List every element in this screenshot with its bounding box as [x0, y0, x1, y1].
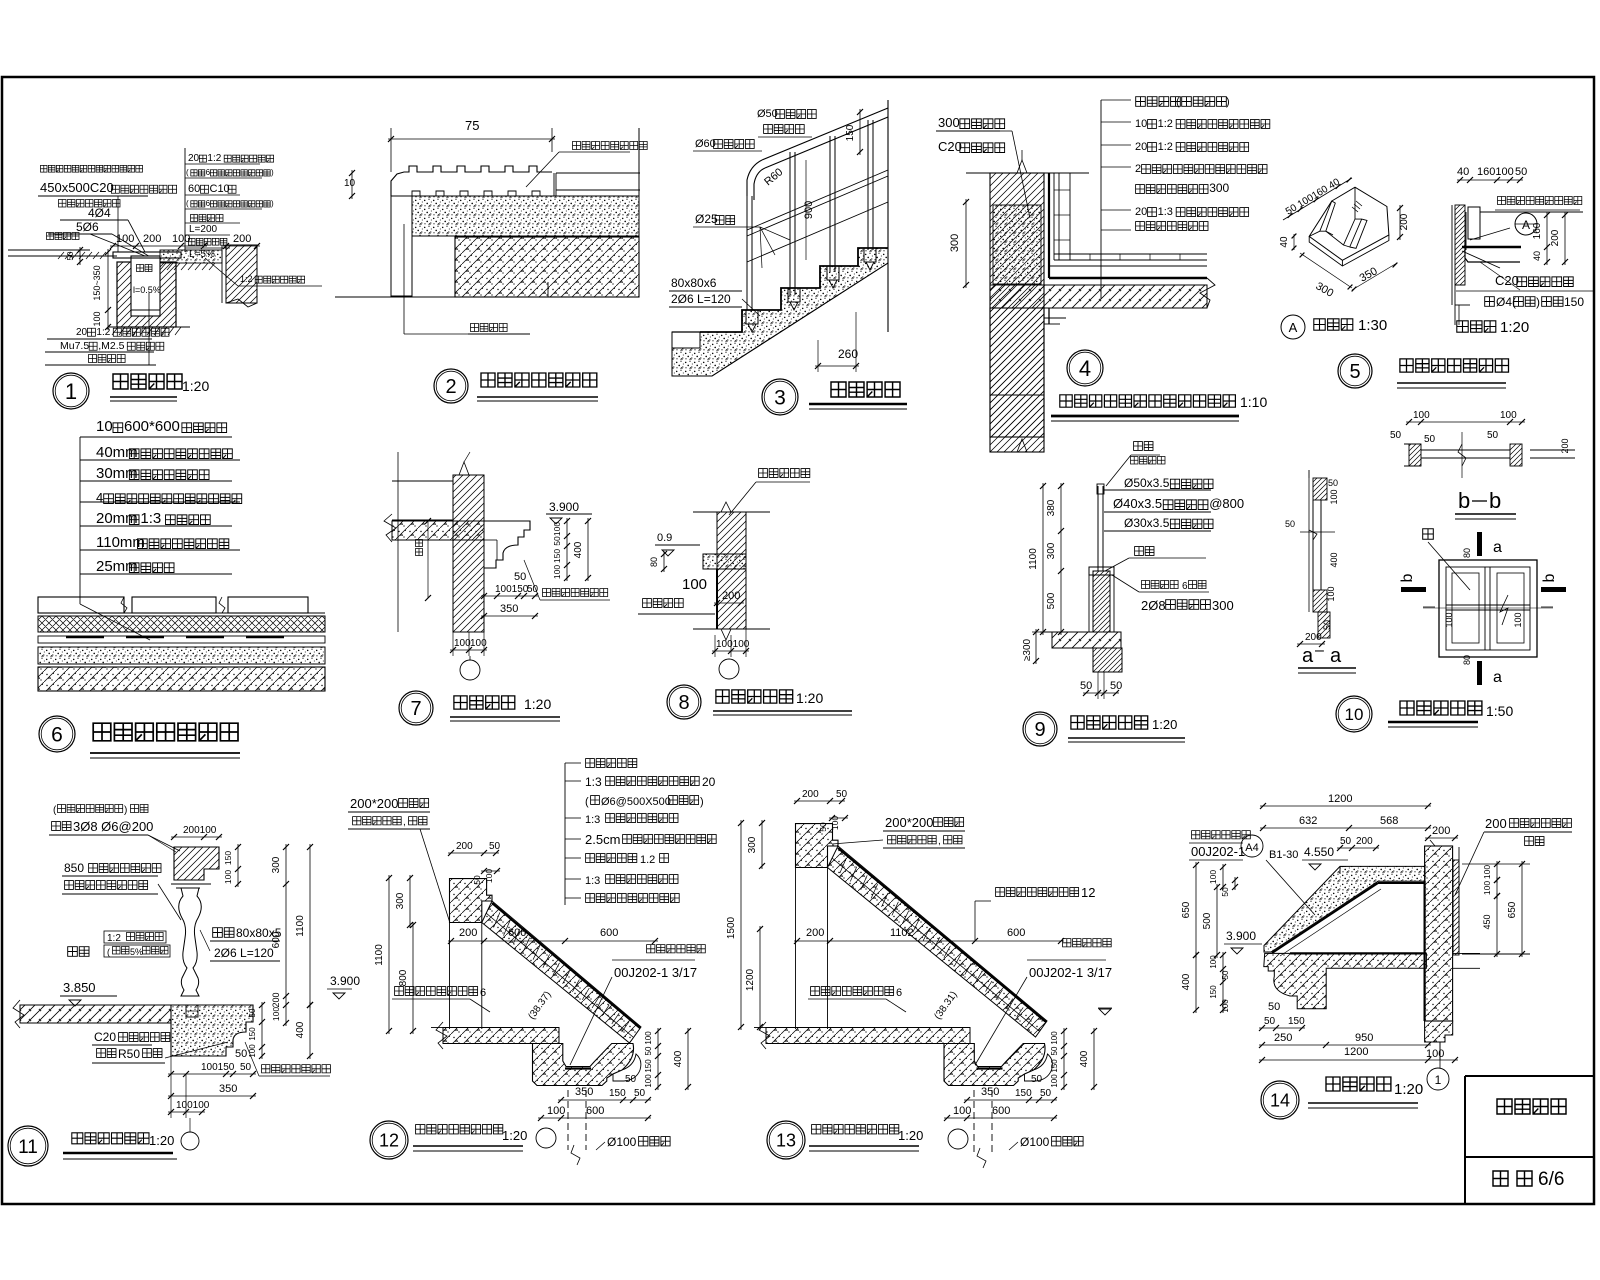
D11 right dim 1100 400: [309, 844, 311, 1008]
D5 axon base plate: [1309, 235, 1389, 266]
D4 leader vline for specs: [1100, 100, 1102, 299]
D10 a-a strip top hatch block: [1313, 478, 1327, 500]
D4 wall top arrow break: [1017, 160, 1027, 173]
D3 mid rail: [747, 170, 888, 230]
D10 window plan inner frame: [1446, 567, 1530, 650]
D5 detail circle 5: [1338, 354, 1372, 388]
svg-text:200: 200: [233, 233, 251, 245]
svg-text:1:20: 1:20: [1500, 319, 1529, 336]
title block text 建施6/6: [1493, 1171, 1508, 1186]
D14 slab thick top line: [1290, 952, 1426, 954]
D8 title 线条大样一 1:20: [716, 690, 793, 703]
svg-text:650: 650: [1507, 901, 1518, 918]
svg-text:50: 50: [625, 1074, 637, 1085]
svg-text:100: 100: [470, 638, 487, 649]
D5 label 雨水管仅落至此屋面: [1498, 197, 1582, 205]
D6 mesh concrete band crosshatch: [38, 616, 325, 632]
svg-text:150: 150: [552, 549, 562, 563]
D13 level tri right: [1099, 1009, 1111, 1015]
D4 slab break right: [1200, 278, 1215, 308]
svg-text:20: 20: [76, 327, 88, 338]
svg-text:(: (: [186, 168, 189, 177]
D1 gutter body hatched: [117, 262, 176, 327]
svg-text:Ø30x3.5: Ø30x3.5: [1124, 516, 1170, 530]
D2 strip outline: [391, 166, 552, 196]
D6 structure slab hatch band: [38, 667, 325, 691]
svg-text:@800: @800: [1209, 496, 1244, 511]
D7 dims right chain 100 50 150 100: [566, 518, 568, 581]
svg-text:150: 150: [644, 1059, 653, 1073]
D9 parapet outer lines: [1088, 567, 1090, 632]
svg-text:300: 300: [1046, 542, 1057, 559]
svg-text:100: 100: [1413, 410, 1430, 421]
svg-text:100: 100: [644, 1031, 653, 1045]
svg-text:11: 11: [18, 1137, 38, 1158]
D5 section slab below: [1455, 284, 1465, 286]
svg-text:2Ø6 L=120: 2Ø6 L=120: [671, 292, 731, 306]
svg-text:150: 150: [223, 851, 233, 865]
D1 right wall break mark: [226, 299, 257, 307]
svg-text:(: (: [186, 199, 189, 208]
svg-text:100: 100: [1221, 999, 1230, 1013]
D2 label 缸砖面层: [471, 324, 508, 332]
D7 node circle: [460, 660, 480, 680]
D8 label 配筋详结施: [759, 469, 810, 478]
svg-text:1200: 1200: [1344, 1046, 1368, 1058]
svg-text:200: 200: [271, 992, 281, 1007]
D1 ground hatch left of gutter: [58, 252, 64, 259]
D2 label 成品防滑槽及面砖: [573, 142, 648, 150]
svg-text:80: 80: [1462, 548, 1472, 558]
D14 leader B1-30 to slope: [1266, 860, 1315, 915]
svg-text:200*200: 200*200: [350, 796, 398, 811]
svg-text:00J202-1 3/17: 00J202-1 3/17: [1029, 965, 1112, 980]
svg-text:2: 2: [445, 376, 456, 398]
D12 slab left break: [436, 1022, 447, 1049]
D6 detail circle 6: [39, 716, 75, 752]
svg-text:600: 600: [271, 931, 282, 948]
svg-text:150: 150: [609, 1088, 626, 1099]
D3 lower rail: [747, 202, 888, 262]
D10 window center line horizontal: [1423, 606, 1435, 608]
svg-text:2Ø8: 2Ø8: [1141, 598, 1166, 613]
D11 handrail cap hatched: [174, 847, 219, 880]
D13 detail circle 13: [767, 1121, 805, 1159]
D3 handrail sloped double line: [762, 108, 888, 160]
title block text 节点详图: [1497, 1099, 1566, 1114]
D10 section marker b left: [1401, 587, 1426, 592]
D11 leader from labels to baluster: [200, 930, 210, 951]
svg-text:Ø25: Ø25: [695, 212, 718, 226]
D9 dim 1100: [1042, 483, 1044, 635]
D4 dim 300 left: [965, 199, 967, 288]
svg-text:200*200: 200*200: [885, 815, 933, 830]
svg-text:1:2: 1:2: [1158, 118, 1173, 130]
D3 detail circle 3: [762, 379, 798, 415]
D3 label 每步一根: [764, 125, 805, 134]
svg-text:100: 100: [271, 1007, 281, 1021]
D12 gutter channel floor thick line: [565, 1067, 591, 1069]
D10 detail circle 10: [1336, 696, 1372, 732]
D13 leader to gutter 13: [975, 977, 1027, 1065]
svg-text:1:3: 1:3: [1158, 206, 1173, 218]
D11 balcony slab hatched: [20, 1005, 171, 1023]
svg-text:1:20: 1:20: [524, 696, 551, 712]
D13 roof slab hatched 13: [766, 1028, 970, 1044]
D5 axon dim 200 vertical: [1399, 205, 1401, 240]
svg-text:00J202-1: 00J202-1: [1191, 844, 1245, 859]
svg-text:,: ,: [403, 817, 406, 828]
D10 section marker a bottom: [1477, 661, 1482, 685]
svg-text:400: 400: [1181, 973, 1192, 990]
svg-text:): ): [271, 168, 274, 177]
D9 label 磨平抛光: [1131, 457, 1166, 465]
svg-text:600: 600: [1007, 927, 1025, 939]
svg-text:50: 50: [1264, 1016, 1276, 1027]
D5 label 配o4(双向)中距150: [1485, 297, 1495, 307]
D13 dim 400 13: [1093, 1028, 1095, 1090]
svg-text:632: 632: [1299, 815, 1317, 827]
svg-text:5Ø6: 5Ø6: [76, 220, 99, 234]
svg-text:10: 10: [344, 178, 356, 189]
svg-text:100: 100: [1482, 881, 1492, 895]
D12 leader to column: [420, 829, 450, 923]
svg-text:l=0.5%: l=0.5%: [133, 285, 161, 295]
svg-text:): ): [124, 805, 127, 816]
svg-text:1:3: 1:3: [585, 814, 600, 826]
svg-text:400: 400: [1329, 552, 1339, 567]
svg-text:): ): [1536, 295, 1540, 309]
svg-text:40: 40: [1457, 166, 1469, 178]
D1 gutter cavity texts 坡缝 l=0.5%: [137, 265, 153, 272]
svg-text:80: 80: [649, 557, 659, 567]
svg-text:50: 50: [240, 1062, 252, 1073]
D3 landing bottom edge: [672, 375, 712, 377]
D7 slab break left: [384, 514, 396, 542]
D10 b-b strip frame lines: [1421, 449, 1510, 451]
svg-text:200: 200: [722, 590, 740, 602]
D8 top wall line: [693, 511, 770, 513]
D13 node circle 13: [948, 1129, 968, 1149]
D4 tile wall double lines: [1048, 173, 1050, 278]
D6 insulation thin band: [38, 636, 325, 643]
D3 leader to anchor: [742, 299, 760, 316]
svg-text:300: 300: [395, 892, 406, 909]
D1 right spec leader vline: [184, 148, 186, 252]
D11 label 角钢80x80x5: [213, 928, 234, 938]
D14 right wall hatched 14: [1425, 846, 1453, 1021]
D1 small dim 50: [79, 247, 81, 265]
D10 title 窗套大样图 1:50: [1400, 701, 1482, 715]
D12 sloped roof band stippled: [482, 901, 641, 1043]
D4 floor joints vertical: [1089, 254, 1091, 260]
svg-text:1:20: 1:20: [1394, 1081, 1423, 1098]
D13 dims right chain 13: [1063, 1028, 1065, 1090]
svg-text:3.900: 3.900: [330, 974, 360, 988]
D9 label 电焊 top: [1134, 442, 1153, 451]
svg-text:1:2: 1:2: [96, 327, 110, 338]
D4 right slab lines below: [1044, 317, 1066, 319]
svg-text:6: 6: [206, 199, 211, 208]
svg-text:500: 500: [1202, 912, 1213, 929]
D13 title 屋顶女儿墙大样二 1:20: [812, 1125, 899, 1134]
D13 left slab break: [759, 1022, 770, 1049]
D3 handrail curve at left: [747, 160, 762, 196]
D12 spec 高分子防水1.2厚: [586, 854, 637, 863]
svg-text:1:3: 1:3: [140, 510, 161, 527]
svg-text:100: 100: [116, 233, 134, 245]
svg-text:100: 100: [454, 638, 471, 649]
svg-text:300: 300: [938, 115, 960, 130]
D2 strip lower teeth: [412, 191, 420, 196]
D1 spec 素土夯实: [191, 215, 224, 222]
D2 bottom line: [335, 296, 639, 298]
D3 stair soffit line: [712, 263, 888, 376]
D10 b-b strip left hatch block: [1409, 444, 1421, 466]
D5 section dims right 160 200 40: [1546, 212, 1548, 265]
svg-text:100: 100: [1329, 489, 1339, 504]
D10 a-a mid break: [1309, 530, 1317, 540]
svg-text:100: 100: [1209, 955, 1218, 969]
D6 title 露台作法大样图: [93, 723, 238, 741]
svg-text:4.550: 4.550: [1304, 845, 1334, 859]
D14 slab lines right of wall: [1453, 952, 1480, 954]
svg-text:10: 10: [1135, 118, 1147, 130]
D12 leader to gutter: [570, 977, 612, 1065]
svg-text:50: 50: [1515, 166, 1527, 178]
svg-text:Ø100: Ø100: [1020, 1135, 1050, 1149]
D13 labels right 00J202-1 3/17 13: [1063, 939, 1112, 947]
svg-text:1:20: 1:20: [182, 378, 209, 394]
D3 balusters: [746, 196, 748, 310]
svg-text:50: 50: [1328, 478, 1338, 488]
svg-text:3.900: 3.900: [1226, 929, 1256, 943]
svg-text:40: 40: [1279, 236, 1290, 248]
D8 node circle: [719, 659, 739, 679]
svg-text:50: 50: [1050, 1046, 1059, 1055]
svg-text:200: 200: [1550, 229, 1561, 246]
D11 right dim chain near cap 150 100: [237, 844, 239, 887]
D11 baluster vase profile: [179, 888, 202, 996]
svg-text:100: 100: [1050, 1031, 1059, 1045]
D2 step nose arrow: [547, 282, 549, 297]
D10 section marker a top: [1477, 532, 1482, 556]
D7 detail circle 7: [399, 691, 433, 725]
D8 wall break arrow top: [721, 502, 731, 512]
D4 detail circle 4: [1067, 350, 1103, 386]
svg-text:≥300: ≥300: [1022, 638, 1033, 661]
D10 section marker b right: [1541, 587, 1566, 592]
svg-text:10: 10: [1345, 705, 1364, 724]
D13 parapet cap hatched 13: [796, 824, 839, 868]
svg-text:100: 100: [1050, 1074, 1059, 1088]
D11 base block stippled with molding: [171, 1005, 253, 1056]
svg-text:a: a: [1330, 645, 1342, 667]
D1 right wall hatched: [226, 245, 257, 303]
D12 spec 蓝色琉璃瓦: [586, 759, 637, 768]
svg-text:300: 300: [747, 836, 758, 853]
svg-text:C20: C20: [938, 139, 962, 154]
svg-text:400: 400: [1079, 1050, 1090, 1067]
D1 leader lines from labels to gutter: [117, 196, 119, 252]
svg-text:5: 5: [1349, 361, 1360, 383]
svg-text:1:50: 1:50: [1486, 703, 1513, 719]
D14 right extra lines: [1462, 953, 1530, 955]
svg-text:150: 150: [248, 1027, 257, 1041]
svg-text:1:20: 1:20: [796, 690, 823, 706]
svg-text:200: 200: [806, 927, 824, 939]
svg-text:350: 350: [219, 1083, 237, 1095]
D14 cornice slab band hatched: [1264, 953, 1427, 1008]
svg-text:5%: 5%: [130, 947, 143, 957]
D8 wall hatched: [717, 512, 746, 629]
svg-text:6/6: 6/6: [1538, 1169, 1564, 1190]
svg-text:20: 20: [702, 775, 716, 789]
D10 a-a lower hatch block: [1313, 590, 1327, 612]
D12 title 屋顶女儿墙大样一 1:20: [416, 1125, 503, 1134]
svg-text:50: 50: [514, 571, 526, 583]
D3 title 楼梯大样: [831, 382, 900, 397]
D9 parapet wall hatched: [1093, 571, 1110, 632]
svg-text:600: 600: [992, 1105, 1010, 1117]
D13 label 披屋顶做法详图节点12: [996, 888, 1079, 897]
svg-text:Ø60: Ø60: [695, 138, 716, 150]
D1 gutter inner floor line: [131, 309, 160, 311]
D12 dims right chain 100 50 150 100: [657, 1028, 659, 1090]
D9 leader 预埋绕水6厚扁钢: [1142, 581, 1179, 589]
D7 title 线条大样 1:20: [454, 696, 515, 709]
D12 sloped band thick waterproof line: [492, 903, 640, 1028]
D9 label 电焊 mid: [1135, 547, 1154, 556]
svg-text:100: 100: [223, 870, 233, 884]
D11 label 内配3o8 o6@200: [52, 822, 71, 831]
svg-text:1:10: 1:10: [1240, 394, 1267, 410]
D6 membrane dashes thick: [66, 636, 104, 638]
D1 ground hatch below gutter: [112, 327, 118, 335]
D12 node circle: [536, 1128, 556, 1148]
D5 section leader lines: [1470, 228, 1510, 240]
svg-text:200: 200: [456, 841, 473, 852]
svg-text:50: 50: [472, 875, 482, 885]
svg-text:(: (: [107, 947, 110, 957]
D3 stair steps outline thick: [700, 248, 888, 332]
D14 right dims 100 100 450 650: [1496, 861, 1498, 883]
D3 stair slab sloped band stippled: [672, 248, 888, 376]
D1 gutter cover plate: [113, 252, 181, 258]
svg-text:(: (: [1176, 96, 1180, 108]
svg-text:40: 40: [1532, 251, 1542, 261]
D11 node circle: [181, 1132, 199, 1150]
svg-text:50: 50: [1285, 519, 1295, 529]
D4 wall below slab: [990, 308, 1044, 452]
svg-text:1200: 1200: [745, 968, 756, 991]
D14 title 雨缘大样 1:20: [1326, 1077, 1391, 1091]
svg-text:100: 100: [547, 1105, 565, 1117]
svg-text:3.850: 3.850: [63, 980, 96, 995]
D5 label 剖面图 1:20: [1457, 321, 1496, 332]
svg-text:1500: 1500: [726, 916, 737, 939]
D2 right edge vline: [638, 128, 640, 297]
D9 slab hatched: [1052, 632, 1121, 648]
D8 bottom break arrow: [721, 629, 731, 640]
D3 anchor plates on steps: [746, 310, 758, 324]
D3 right edge post: [887, 100, 889, 332]
svg-text:1:3: 1:3: [585, 875, 600, 887]
svg-text:100: 100: [1513, 612, 1523, 627]
svg-text:2Ø6 L=120: 2Ø6 L=120: [214, 946, 274, 960]
D12 wall below cap: [449, 923, 451, 1030]
D14 left dims lower 100 50 150 100 400: [1222, 952, 1224, 1013]
D12 roof slab hatched: [443, 1028, 559, 1044]
D4 waterproof thick lines: [1049, 277, 1207, 279]
svg-text:1: 1: [65, 379, 77, 404]
svg-text:300: 300: [949, 234, 961, 252]
D4 leader to wall: [1000, 130, 1012, 132]
svg-text:1:2: 1:2: [107, 933, 121, 944]
svg-text:50: 50: [1390, 430, 1402, 441]
svg-text:380: 380: [1046, 499, 1057, 516]
D7 wall vertical hatched: [453, 475, 484, 632]
D14 right leader: [1455, 832, 1484, 895]
svg-text:300: 300: [271, 856, 282, 873]
D9 title 护栏大样图 1:20: [1071, 716, 1148, 729]
svg-text:160: 160: [1532, 222, 1543, 239]
svg-text:1:30: 1:30: [1358, 317, 1387, 334]
svg-text:100: 100: [552, 522, 562, 536]
svg-text:3.900: 3.900: [549, 500, 579, 514]
D12 sloped band rung ticks: [494, 912, 629, 1032]
D11 title 阳台栏杆大样 1:20: [72, 1133, 149, 1144]
D1 bottom leader vline: [148, 293, 150, 365]
svg-text:1200: 1200: [1328, 793, 1352, 805]
D12 gutter U shape hatched: [533, 1044, 634, 1086]
D14 left dims 100 50 650 500: [1222, 864, 1224, 890]
D4 floor layer horizontal lines: [1054, 253, 1207, 255]
D13 sloped band rung ticks 13: [840, 858, 1034, 1026]
D8 wall lower thick edge: [716, 569, 718, 629]
D8 molding band stipple: [703, 554, 746, 569]
D5 axon hatch ticks: [1352, 201, 1362, 212]
svg-text:13: 13: [776, 1130, 796, 1150]
svg-text:100: 100: [644, 1074, 653, 1088]
svg-text:C20: C20: [1495, 273, 1519, 288]
svg-text:50: 50: [1110, 680, 1122, 692]
svg-text:200: 200: [459, 927, 477, 939]
svg-text:A: A: [1289, 320, 1298, 335]
svg-text:C10: C10: [210, 183, 230, 195]
D5 section wall hatched: [1455, 205, 1465, 285]
D11 slab left break: [13, 1000, 24, 1028]
D14 sloped thick waterproof line: [1272, 883, 1378, 953]
D2 detail circle 2: [434, 369, 468, 403]
D5 section downpipe box: [1468, 207, 1480, 239]
svg-text:1102: 1102: [890, 927, 914, 939]
svg-text:350: 350: [981, 1086, 999, 1098]
svg-text:400: 400: [673, 1050, 684, 1067]
D4 wall inner concrete stipple: [993, 205, 1041, 284]
svg-text:1:20: 1:20: [502, 1128, 527, 1143]
D1 mortar strip between gutter and wall: [160, 250, 222, 263]
D13 gutter channel floor thick line 13: [977, 1067, 1003, 1069]
svg-text:150: 150: [845, 124, 856, 141]
svg-text:100: 100: [248, 1044, 257, 1058]
D4 title 厨房卫生间防水装修详图: [1060, 395, 1236, 407]
D5 axon scupper isometric outline: [1309, 187, 1389, 260]
svg-text:50: 50: [818, 822, 828, 832]
D6 mortar stipple band: [38, 647, 325, 664]
svg-text:10: 10: [96, 418, 113, 435]
svg-text:200100: 200100: [183, 825, 217, 836]
